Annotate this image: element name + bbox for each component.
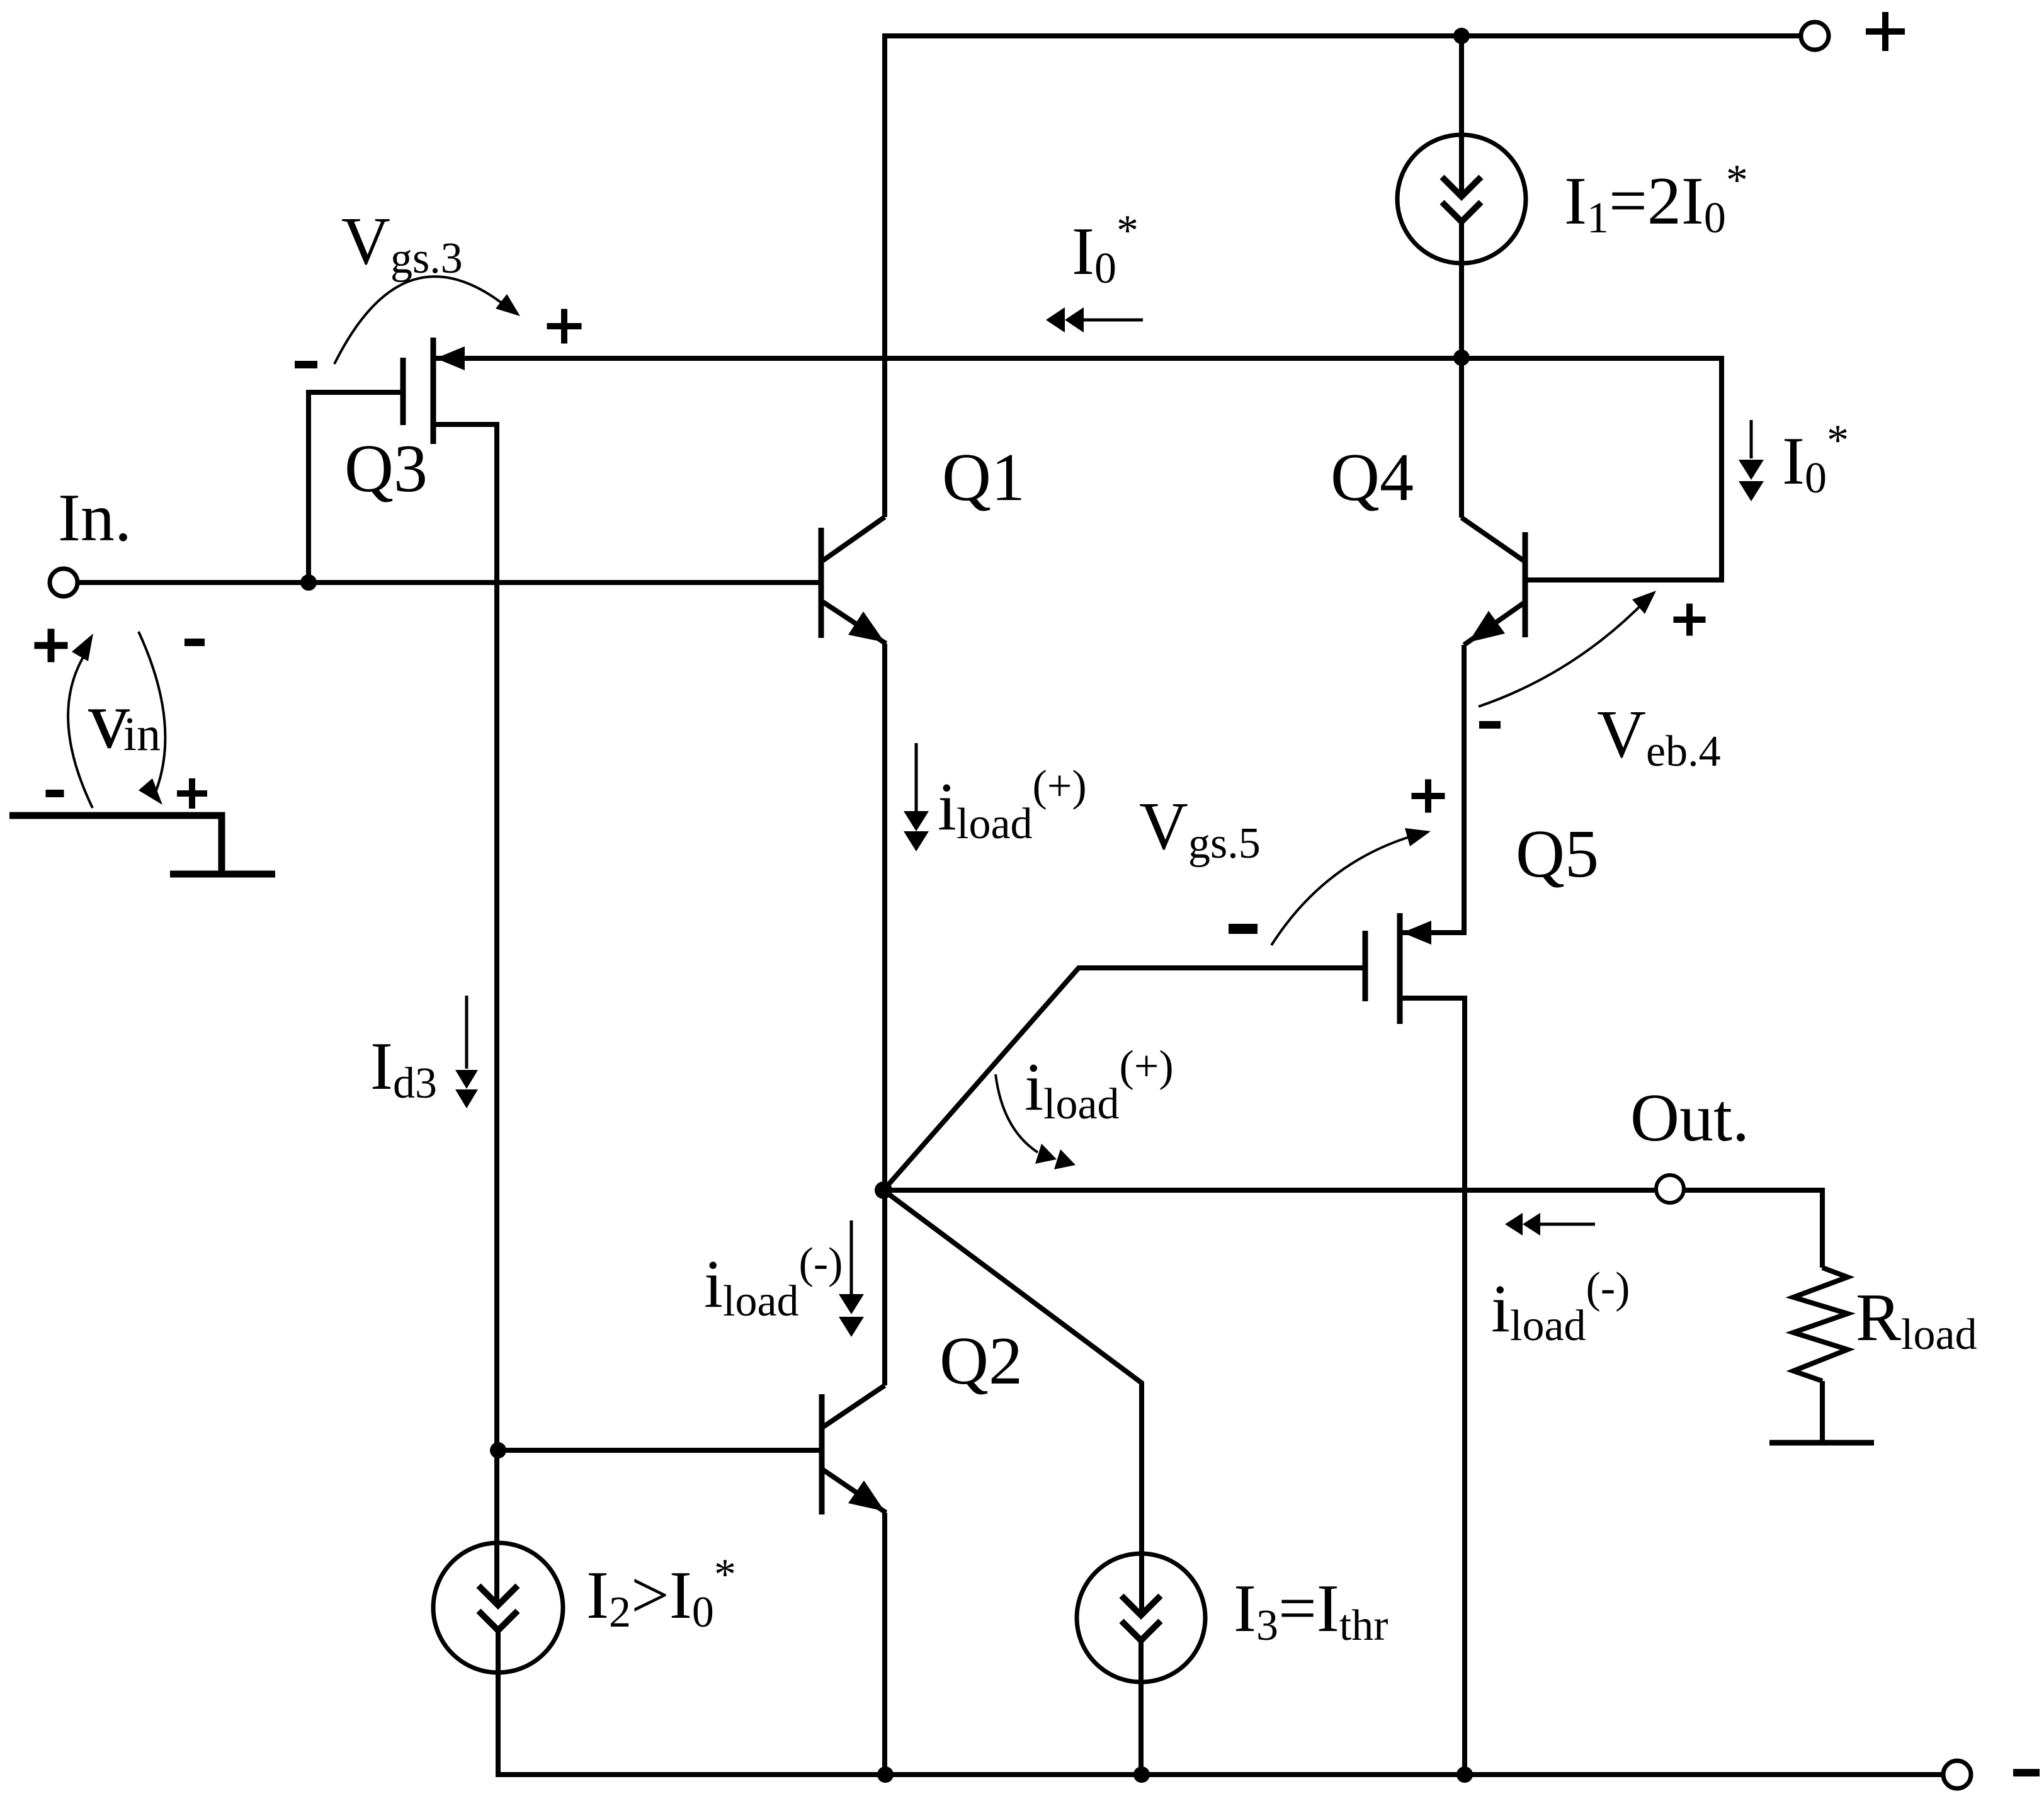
wire: negative supply rail (bottom) bbox=[498, 1772, 1943, 1775]
wire: output line bbox=[883, 1190, 1822, 1268]
transistor Q2 base bar bbox=[819, 1394, 825, 1515]
label Q2 bbox=[940, 1324, 1023, 1399]
current arrow iload(-) (down, left of Q2) bbox=[839, 1220, 864, 1337]
resistor Rload bbox=[1793, 1268, 1848, 1381]
current arrow I0* (top, pointing left) bbox=[1046, 307, 1143, 332]
label I2>I0* bbox=[586, 1550, 736, 1637]
wire: Q1 emitter down to output node bbox=[882, 644, 887, 1190]
current source I3 arrow chevrons bbox=[1121, 1596, 1161, 1640]
label iload(-) (left) bbox=[704, 1239, 843, 1326]
transistor Q2 collector lead bbox=[823, 1385, 885, 1427]
svg-text:Q1: Q1 bbox=[942, 440, 1025, 515]
label + (Vgs.3 source side) bbox=[547, 309, 582, 344]
transistor Q3 gate lead bbox=[309, 392, 403, 583]
wire: diagonal node to I3 column bbox=[883, 1190, 1142, 1615]
junction dot input/Q3-gate node bbox=[300, 574, 317, 591]
current arrow iload(+) (down, on Q1 emitter wire) bbox=[904, 743, 929, 851]
junction dot bottom rail at Q5 column bbox=[1456, 1766, 1473, 1783]
junction dot Q3-drain/Q2-base bbox=[490, 1442, 506, 1458]
svg-text:Out.: Out. bbox=[1630, 1081, 1749, 1156]
label Q5 bbox=[1516, 817, 1599, 892]
curved arrow for Vgs.3 bbox=[334, 276, 520, 364]
ground for Rload bbox=[1769, 1440, 1874, 1446]
label iload(+) (upper) bbox=[938, 762, 1087, 848]
label I1=2I0* bbox=[1564, 156, 1748, 242]
label iload(-) (right) bbox=[1491, 1264, 1630, 1350]
terminal: Out (open circle) bbox=[1656, 1175, 1684, 1203]
terminal: positive supply (open circle) bbox=[1801, 22, 1829, 50]
junction dot on top rail at I1 column bbox=[1453, 28, 1470, 44]
label - (Vgs.3 gate side) bbox=[295, 361, 317, 368]
transistor Q4 base bar bbox=[1523, 532, 1528, 637]
label Veb.4 bbox=[1597, 697, 1721, 776]
label Q3 bbox=[344, 431, 428, 506]
current arrow iload(-) (near Out, pointing left) bbox=[1505, 1213, 1595, 1236]
curved arrow vin left bbox=[68, 634, 93, 808]
wire: diagonal node to Q5 gate bbox=[883, 968, 1365, 1190]
transistor Q5 drain lead and column down bbox=[1400, 998, 1465, 1775]
wire: Q2 emitter down to negative rail bbox=[882, 1513, 887, 1775]
label Vgs.3 bbox=[341, 204, 463, 283]
svg-text:Q3: Q3 bbox=[344, 431, 428, 506]
current source I2 circle bbox=[433, 1543, 563, 1673]
label + (vin bottom right) bbox=[177, 778, 207, 809]
junction dot bottom rail at I3 bbox=[1133, 1766, 1150, 1783]
wire: I1 column lower bbox=[1459, 222, 1464, 358]
label - (negative supply) bbox=[2013, 1769, 2040, 1776]
transistor Q2 emitter lead bbox=[823, 1470, 886, 1513]
transistor Q5 source arrow bbox=[1402, 921, 1431, 945]
terminal: negative supply (open circle) bbox=[1943, 1761, 1971, 1788]
label vin bbox=[88, 673, 161, 766]
label Id3 bbox=[370, 1029, 437, 1108]
svg-text:in: in bbox=[123, 708, 161, 761]
wire: I1 column upper bbox=[1459, 36, 1464, 196]
label + (Veb.4) bbox=[1674, 604, 1706, 636]
label Out. bbox=[1630, 1081, 1749, 1156]
transistor Q3 gate bar bbox=[400, 358, 406, 425]
label iload(+) (lower) bbox=[1025, 1042, 1174, 1128]
node: output summing node dot bbox=[875, 1181, 892, 1199]
curved arrow iload(+) into diagonal bbox=[996, 1074, 1076, 1169]
junction dot bottom rail at Q2 bbox=[877, 1766, 894, 1783]
label - (Veb.4) bbox=[1479, 721, 1501, 729]
current source I1 arrow chevrons bbox=[1442, 177, 1481, 222]
label Q4 bbox=[1331, 440, 1414, 515]
label + (positive supply) bbox=[1866, 12, 1905, 51]
curved arrow vin right bbox=[139, 632, 165, 805]
curved arrow for Veb.4 bbox=[1479, 591, 1656, 707]
label - (Vgs.5) bbox=[1229, 924, 1258, 934]
current source I2 arrow chevrons bbox=[479, 1586, 518, 1630]
svg-text:I2​>I0​*​: I2​>I0​*​ bbox=[586, 1550, 736, 1637]
transistor Q1 emitter lead bbox=[823, 602, 886, 644]
label In. bbox=[58, 480, 132, 555]
wire: Q4 collector column bbox=[1459, 358, 1464, 518]
label I0* (right) bbox=[1782, 416, 1849, 503]
label + (Vgs.5) bbox=[1412, 780, 1445, 813]
svg-text:Q2: Q2 bbox=[940, 1324, 1023, 1399]
transistor Q3 drain lead and column down bbox=[433, 424, 497, 1605]
transistor Q1 collector lead bbox=[823, 517, 885, 560]
wire: Rload bottom lead bbox=[1820, 1381, 1825, 1443]
label I0* (top) bbox=[1072, 207, 1138, 293]
transistor Q3 source arrow (points into channel) bbox=[436, 346, 465, 370]
junction dot on gate line at I1 column bbox=[1453, 350, 1470, 366]
wire: node down to Q2 collector bbox=[882, 1190, 887, 1385]
label - (vin top right) bbox=[185, 639, 205, 646]
transistor Q5 channel bar bbox=[1397, 913, 1403, 1024]
svg-text:In.: In. bbox=[58, 480, 132, 555]
wire: gate/base distribution line (Q3 source to Q4 base loop top) bbox=[436, 356, 1722, 361]
label Q1 bbox=[942, 440, 1025, 515]
current source I3 circle bbox=[1077, 1554, 1205, 1682]
label + (vin top left) bbox=[35, 629, 68, 662]
label Rload bbox=[1856, 1280, 1977, 1359]
wire: Q4 base loop right side down bbox=[1525, 356, 1722, 580]
transistor Q4 collector lead bbox=[1462, 518, 1525, 562]
transistor Q3 channel bar bbox=[431, 338, 436, 444]
wire: positive supply rail (top) bbox=[885, 36, 1801, 517]
wire: Q4 emitter to Q5 source bbox=[1400, 645, 1464, 933]
wire: I3 to negative rail bbox=[1138, 1640, 1144, 1775]
wire: Q2 base line bbox=[498, 1448, 822, 1453]
curved arrow for Vgs.5 bbox=[1271, 828, 1431, 945]
wire: input line to Q1 base bbox=[77, 580, 821, 585]
svg-text:Q5: Q5 bbox=[1516, 817, 1599, 892]
step waveform input signal bbox=[9, 816, 275, 874]
current arrow I0* (right, pointing down) bbox=[1739, 420, 1764, 501]
label Vgs.5 bbox=[1139, 789, 1261, 868]
label - (vin bottom left) bbox=[46, 790, 64, 797]
transistor Q4 emitter lead bbox=[1464, 602, 1525, 645]
wire: I2 to negative rail and rail corner bbox=[496, 1630, 501, 1775]
svg-text:Q4: Q4 bbox=[1331, 440, 1414, 515]
current source I1 circle bbox=[1397, 135, 1526, 263]
current arrow Id3 (down) bbox=[455, 996, 478, 1108]
transistor Q5 gate bar bbox=[1363, 931, 1368, 1001]
terminal: In (open circle) bbox=[50, 569, 77, 596]
transistor Q1 base bar bbox=[819, 528, 824, 638]
label I3=Ithr bbox=[1234, 1571, 1388, 1650]
